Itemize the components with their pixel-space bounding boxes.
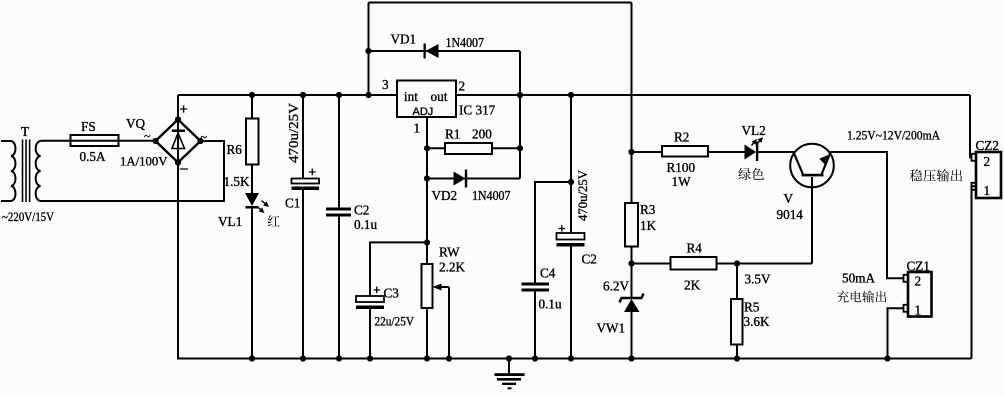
label VD1 (391, 32, 417, 47)
label 22u/25V (375, 315, 415, 329)
svg-text:0.1u: 0.1u (539, 297, 562, 312)
junction ADJ C3 branch (424, 239, 430, 245)
svg-text:VW1: VW1 (597, 321, 626, 336)
svg-text:470u/25V: 470u/25V (575, 169, 590, 221)
pin 2 CZ1 (915, 274, 922, 289)
label VW1 (597, 321, 626, 336)
transistor V 9014 (790, 144, 834, 264)
wire positive rail left (178, 94, 397, 96)
svg-text:3.6K: 3.6K (744, 314, 770, 329)
label 2K (684, 278, 701, 293)
potentiometer RW wiper arrow (433, 284, 450, 291)
wire emitter to CZ1 pin 2 (830, 152, 903, 278)
label R2 (674, 130, 689, 145)
zener VW1 (620, 294, 644, 359)
junction ground zener (628, 355, 634, 361)
pin 2 CZ2 (984, 154, 991, 169)
junction ground C2 (336, 355, 342, 361)
junction bridge top vertex (175, 116, 181, 122)
pin 3 (382, 77, 389, 92)
label C3 + (373, 282, 381, 297)
label 0.1u C4 (539, 297, 562, 312)
svg-text:T: T (21, 124, 29, 139)
wire bridge top to positive rail (177, 95, 179, 120)
label IC 317 (459, 103, 496, 118)
svg-text:1: 1 (984, 183, 991, 198)
label R1 (445, 127, 460, 142)
label 0.1u C2 (354, 217, 377, 232)
junction rail R6 (249, 92, 255, 98)
label - bridge (180, 160, 188, 176)
svg-text:9014: 9014 (777, 207, 804, 222)
wire R3 to zener (631, 247, 633, 299)
junction ground CZ1 (884, 355, 890, 361)
capacitor C3 plates (356, 296, 384, 309)
label R100 (667, 160, 696, 175)
wire ground rail (178, 358, 972, 360)
svg-text:VQ: VQ (126, 116, 146, 131)
capacitor C2 plates (326, 208, 351, 217)
wire rail to CZ2 pin 2 (970, 95, 972, 157)
svg-text:R100: R100 (667, 160, 696, 175)
resistor R5 (731, 299, 743, 345)
svg-text:~: ~ (144, 129, 151, 143)
label 1A/100V (120, 154, 168, 169)
potentiometer RW body (422, 264, 433, 308)
resistor R3 (625, 203, 638, 247)
wire bypass right vertical (631, 3, 633, 204)
label 9014 (777, 207, 804, 222)
junction R2 node (628, 149, 634, 155)
svg-text:~: ~ (201, 130, 208, 144)
label regulated output (910, 169, 962, 181)
svg-text:1N4007: 1N4007 (446, 35, 485, 50)
svg-text:1: 1 (414, 121, 421, 136)
junction bridge bottom vertex (175, 159, 181, 165)
junction R1 output node (517, 145, 523, 151)
wire C1 to ground rail (302, 190, 304, 359)
wire C3 branch (370, 242, 427, 296)
wire VD1 (369, 50, 521, 52)
diode VD2 (454, 170, 468, 188)
svg-text:1N4007: 1N4007 (472, 188, 511, 203)
wire rail to C2 470u (570, 95, 572, 233)
wire RW wiper to ground rail (448, 287, 450, 359)
pin 1 CZ2 (984, 183, 991, 198)
svg-text:2: 2 (459, 79, 466, 94)
wire bridge bottom to ground rail (177, 163, 179, 360)
svg-text:3: 3 (382, 77, 389, 92)
label ~ right (201, 130, 208, 144)
svg-text:int: int (404, 89, 418, 104)
svg-text:6.2V: 6.2V (603, 279, 629, 294)
label charge output (837, 291, 886, 303)
label 50mA (842, 271, 875, 286)
label 1W (672, 174, 692, 189)
wire C4 branch (535, 182, 571, 283)
svg-text:out: out (431, 89, 448, 104)
wire R2 to VL2 (708, 151, 745, 153)
junction ground R5 (734, 355, 740, 361)
svg-text:VL1: VL1 (218, 214, 242, 229)
svg-text:R5: R5 (744, 300, 760, 315)
label 1N4007 VD1 (446, 35, 485, 50)
wire CZ1 pin 1 to ground rail (888, 308, 904, 358)
svg-text:22u/25V: 22u/25V (375, 315, 415, 329)
wire positive rail right (456, 94, 970, 96)
wire R6 to VL1 (251, 165, 253, 194)
junction ground wiper (446, 355, 452, 361)
wire C4 to ground rail (534, 292, 536, 359)
label C3 (384, 286, 400, 301)
wire ADJ to R1 (427, 147, 445, 149)
wire R5 top (736, 264, 738, 300)
label 3.6K (744, 314, 770, 329)
transformer T primary winding (1, 141, 16, 201)
svg-text:IC 317: IC 317 (459, 103, 496, 118)
svg-text:1K: 1K (640, 218, 657, 233)
junction rail C1 (300, 92, 306, 98)
label 0.5A (80, 149, 106, 164)
junction ground RW (424, 355, 430, 361)
svg-text:C2: C2 (354, 203, 369, 218)
wire VL1 to ground rail (251, 209, 253, 359)
svg-text:0.5A: 0.5A (80, 149, 106, 164)
label VL2 (742, 123, 766, 138)
transformer T secondary winding (36, 141, 41, 201)
label R5 (744, 300, 760, 315)
svg-text:ADJ: ADJ (413, 106, 434, 118)
resistor R6 (246, 119, 259, 165)
label C1 + (309, 164, 317, 179)
junction VD1 left (365, 48, 371, 54)
pin 1 (414, 121, 421, 136)
svg-text:R3: R3 (640, 202, 656, 217)
label VD2 (432, 188, 458, 203)
wire VL2 to transistor (758, 151, 794, 153)
label RW (439, 245, 460, 260)
junction ADJ R1 (424, 145, 430, 151)
svg-text:1.25V~12V/200mA: 1.25V~12V/200mA (847, 129, 941, 143)
svg-text:R1: R1 (445, 127, 460, 142)
label green (738, 168, 764, 180)
capacitor C2 470u plates (557, 233, 585, 247)
wire bypass top (369, 2, 632, 4)
ground (495, 355, 525, 389)
svg-text:–: – (180, 160, 188, 176)
svg-text:1.5K: 1.5K (224, 174, 250, 189)
wire secondary bottom to bridge right vertex (41, 141, 225, 201)
junction ground C3 (367, 355, 373, 361)
label CZ2 (976, 138, 999, 153)
label 6.2V (603, 279, 629, 294)
LED VL2 (745, 137, 764, 161)
junction ground C2 470u (568, 355, 574, 361)
label 200 (472, 127, 492, 142)
svg-text:CZ1: CZ1 (907, 259, 930, 274)
svg-text:R2: R2 (674, 130, 689, 145)
pin 1 CZ1 (915, 303, 922, 318)
junction rail C2 (336, 92, 342, 98)
svg-text:C3: C3 (384, 286, 400, 301)
op-amp U1 IC 317 box (397, 81, 456, 119)
fuse FS (71, 135, 119, 146)
wire VD2 (427, 178, 520, 180)
svg-text:+: + (309, 164, 317, 179)
label 1N4007 VD2 (472, 188, 511, 203)
wire ADJ pin down (426, 117, 428, 264)
junction R4 node (628, 260, 634, 266)
label C2 470u (582, 252, 597, 267)
junction ground C1 (300, 355, 306, 361)
label 470u/25V C1 (287, 103, 302, 163)
svg-text:3.5V: 3.5V (745, 272, 771, 287)
wire secondary top to bridge left vertex (41, 140, 156, 142)
svg-text:2.2K: 2.2K (439, 260, 465, 275)
svg-text:R6: R6 (227, 142, 243, 157)
label 1.5K (224, 174, 250, 189)
label 2.2K (439, 260, 465, 275)
label C1 (285, 196, 300, 211)
junction output rail (517, 92, 523, 98)
wire C2 to ground rail (338, 217, 340, 359)
label ~ left (144, 129, 151, 143)
capacitor C4 plates (522, 283, 550, 292)
label V (784, 191, 794, 206)
transformer T core (23, 140, 30, 203)
resistor R1 (445, 143, 492, 154)
pin 2 (459, 79, 466, 94)
wire R5 to ground rail (736, 345, 738, 359)
resistor R4 (671, 257, 717, 270)
label ~220V/15V (2, 210, 54, 224)
wire C3 to ground rail (369, 309, 371, 359)
svg-text:50mA: 50mA (842, 271, 875, 286)
wire RW bottom to ground rail (426, 308, 428, 359)
wire rail to C2 (338, 95, 340, 208)
wire VD1 right vertical to output node (519, 51, 521, 179)
svg-text:RW: RW (439, 245, 460, 260)
label 1K (640, 218, 657, 233)
diode VD1 (424, 44, 439, 59)
wire rail to C1 (302, 95, 304, 179)
label red (268, 215, 280, 226)
wire R4 left (632, 263, 671, 265)
svg-text:C2: C2 (582, 252, 597, 267)
svg-text:1: 1 (915, 303, 922, 318)
wire R2 node to R2 (632, 151, 663, 153)
junction bridge right vertex (197, 138, 203, 144)
svg-text:R4: R4 (687, 241, 703, 256)
junction rail bypass left (365, 92, 371, 98)
label C2 470u + (558, 221, 566, 236)
label 470u/25V C2 (575, 169, 590, 221)
resistor R2 (662, 146, 708, 157)
label + bridge (180, 101, 188, 117)
bridge rectifier VQ internal diode (172, 120, 185, 162)
wire CZ2 pin 1 to ground rail (972, 186, 977, 358)
wire bypass left vertical (368, 3, 370, 96)
junction bridge left vertex (152, 138, 158, 144)
LED VL1 (245, 193, 269, 213)
junction ground C4 (532, 355, 538, 361)
label C4 (540, 266, 556, 281)
label VL1 (218, 214, 242, 229)
svg-text:2: 2 (984, 154, 991, 169)
svg-text:1W: 1W (672, 174, 692, 189)
svg-text:CZ2: CZ2 (976, 138, 999, 153)
wire C2 470u to ground rail (570, 247, 572, 359)
capacitor C1 plates (292, 179, 320, 191)
label 1.25V~12V/200mA (847, 129, 941, 143)
svg-text:+: + (558, 221, 566, 236)
svg-text:C1: C1 (285, 196, 300, 211)
svg-text:+: + (373, 282, 381, 297)
junction R5 node (734, 260, 740, 266)
label C2 (354, 203, 369, 218)
label R6 (227, 142, 243, 157)
label 3.5V (745, 272, 771, 287)
label CZ1 (907, 259, 930, 274)
svg-text:+: + (180, 101, 188, 117)
svg-text:VD1: VD1 (391, 32, 417, 47)
svg-text:0.1u: 0.1u (354, 217, 377, 232)
svg-text:2K: 2K (684, 278, 701, 293)
junction C4 tee (568, 179, 574, 185)
junction rail C2 470u (568, 92, 574, 98)
svg-text:V: V (784, 191, 794, 206)
bridge rectifier VQ diamond (156, 120, 201, 163)
label R3 (640, 202, 656, 217)
wire R4 to base node (717, 263, 813, 265)
connector CZ2 (972, 152, 1002, 198)
svg-text:VL2: VL2 (742, 123, 766, 138)
label VQ (126, 116, 146, 131)
svg-text:1A/100V: 1A/100V (120, 154, 168, 169)
svg-text:C4: C4 (540, 266, 556, 281)
svg-text:FS: FS (81, 119, 96, 134)
svg-text:2: 2 (915, 274, 922, 289)
svg-text:470u/25V: 470u/25V (287, 103, 302, 163)
junction ADJ VD2 (424, 175, 430, 181)
wire rail to R6 (251, 95, 253, 119)
label FS (81, 119, 96, 134)
label T (21, 124, 29, 139)
connector CZ1 (904, 272, 932, 317)
wire R1 to output node (492, 147, 520, 149)
svg-text:VD2: VD2 (432, 188, 458, 203)
svg-text:200: 200 (472, 127, 492, 142)
label R4 (687, 241, 703, 256)
svg-text:~220V/15V: ~220V/15V (2, 210, 54, 224)
junction ground R6 branch (249, 355, 255, 361)
